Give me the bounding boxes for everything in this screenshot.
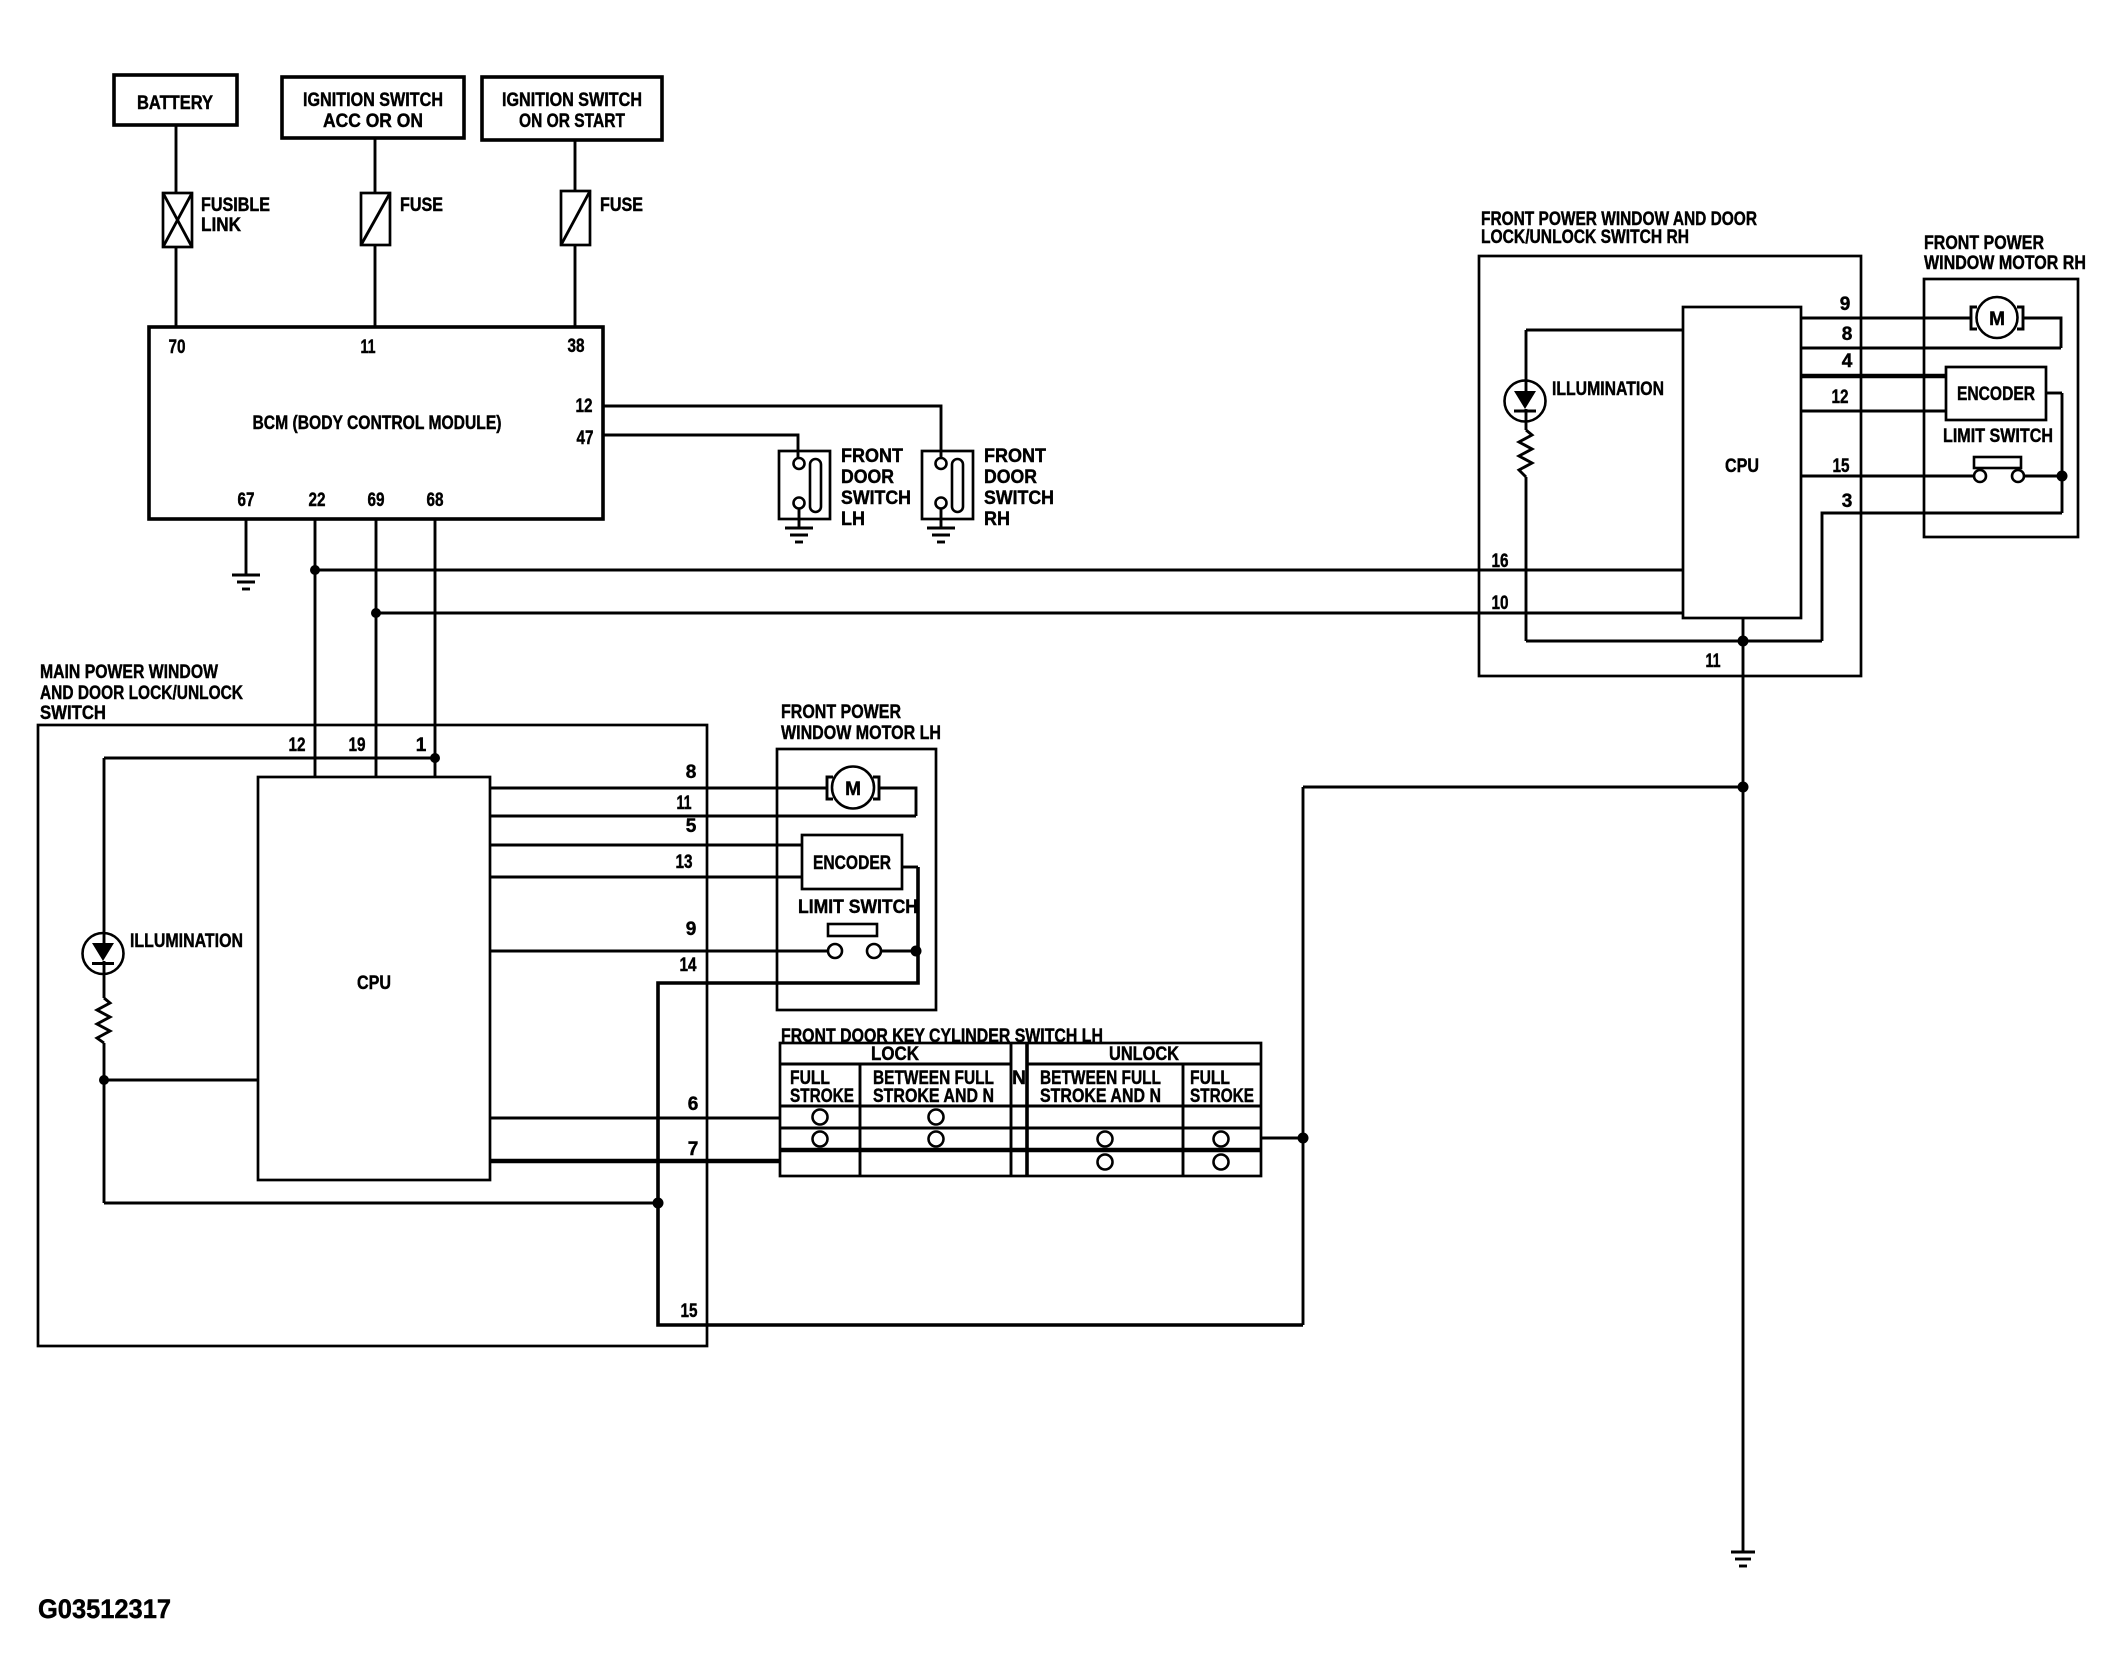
svg-text:19: 19 [349, 735, 366, 756]
svg-text:WINDOW MOTOR RH: WINDOW MOTOR RH [1924, 253, 2086, 274]
svg-text:N: N [1012, 1068, 1026, 1089]
svg-text:12: 12 [1832, 387, 1849, 408]
svg-text:LOCK: LOCK [871, 1044, 919, 1065]
svg-text:14: 14 [680, 955, 697, 976]
svg-text:47: 47 [577, 428, 594, 449]
svg-text:CPU: CPU [1725, 456, 1759, 477]
svg-text:RH: RH [984, 509, 1010, 530]
svg-text:ENCODER: ENCODER [1957, 384, 2035, 405]
svg-text:UNLOCK: UNLOCK [1109, 1044, 1179, 1065]
svg-text:CPU: CPU [357, 973, 391, 994]
svg-text:16: 16 [1492, 551, 1509, 572]
svg-text:STROKE AND N: STROKE AND N [873, 1086, 994, 1107]
svg-text:9: 9 [1840, 294, 1851, 315]
svg-text:G03512317: G03512317 [38, 1594, 171, 1624]
svg-text:IGNITION SWITCH: IGNITION SWITCH [502, 90, 642, 111]
svg-text:67: 67 [238, 490, 255, 511]
svg-text:8: 8 [686, 762, 697, 783]
svg-text:15: 15 [1833, 456, 1850, 477]
svg-text:AND DOOR LOCK/UNLOCK: AND DOOR LOCK/UNLOCK [40, 683, 243, 704]
svg-text:BATTERY: BATTERY [137, 93, 213, 114]
svg-text:M: M [1989, 309, 2005, 330]
svg-text:7: 7 [688, 1139, 699, 1160]
svg-text:8: 8 [1842, 324, 1853, 345]
svg-text:ENCODER: ENCODER [813, 853, 891, 874]
svg-text:70: 70 [169, 337, 186, 358]
svg-text:10: 10 [1492, 593, 1509, 614]
svg-text:12: 12 [289, 735, 306, 756]
svg-text:5: 5 [686, 816, 697, 837]
svg-text:FUSIBLE: FUSIBLE [201, 195, 270, 216]
svg-text:LIMIT SWITCH: LIMIT SWITCH [1943, 426, 2053, 447]
svg-text:MAIN POWER WINDOW: MAIN POWER WINDOW [40, 662, 218, 683]
svg-text:38: 38 [568, 336, 585, 357]
svg-text:12: 12 [576, 396, 593, 417]
svg-text:15: 15 [681, 1301, 698, 1322]
svg-text:LIMIT SWITCH: LIMIT SWITCH [798, 897, 918, 918]
svg-text:LINK: LINK [201, 215, 241, 236]
svg-text:FUSE: FUSE [400, 195, 443, 216]
svg-text:WINDOW MOTOR LH: WINDOW MOTOR LH [781, 723, 941, 744]
svg-text:9: 9 [686, 919, 697, 940]
svg-text:BCM (BODY CONTROL MODULE): BCM (BODY CONTROL MODULE) [253, 413, 502, 434]
svg-text:6: 6 [688, 1094, 699, 1115]
svg-text:FRONT POWER: FRONT POWER [1924, 233, 2044, 254]
svg-text:FUSE: FUSE [600, 195, 643, 216]
svg-text:M: M [845, 779, 861, 800]
svg-text:FRONT: FRONT [841, 446, 903, 467]
svg-text:FRONT: FRONT [984, 446, 1046, 467]
svg-text:ACC OR ON: ACC OR ON [323, 111, 423, 132]
svg-text:IGNITION SWITCH: IGNITION SWITCH [303, 90, 443, 111]
svg-text:STROKE AND N: STROKE AND N [1040, 1086, 1161, 1107]
svg-text:SWITCH: SWITCH [984, 488, 1054, 509]
svg-text:ILLUMINATION: ILLUMINATION [130, 931, 243, 952]
svg-text:1: 1 [416, 735, 427, 756]
svg-text:LOCK/UNLOCK SWITCH RH: LOCK/UNLOCK SWITCH RH [1481, 227, 1689, 248]
svg-text:ILLUMINATION: ILLUMINATION [1552, 379, 1664, 400]
svg-text:11: 11 [677, 793, 692, 814]
svg-text:22: 22 [309, 490, 326, 511]
svg-text:68: 68 [427, 490, 444, 511]
svg-text:SWITCH: SWITCH [40, 703, 106, 724]
svg-text:DOOR: DOOR [984, 467, 1037, 488]
svg-text:4: 4 [1842, 351, 1853, 372]
svg-text:LH: LH [841, 509, 865, 530]
svg-text:3: 3 [1842, 491, 1853, 512]
svg-text:STROKE: STROKE [1190, 1086, 1254, 1107]
svg-text:11: 11 [361, 337, 376, 358]
svg-text:FRONT POWER: FRONT POWER [781, 702, 901, 723]
svg-text:SWITCH: SWITCH [841, 488, 911, 509]
svg-text:STROKE: STROKE [790, 1086, 854, 1107]
svg-text:69: 69 [368, 490, 385, 511]
svg-text:11: 11 [1706, 651, 1721, 672]
svg-text:ON OR START: ON OR START [519, 111, 625, 132]
svg-text:13: 13 [676, 852, 693, 873]
svg-text:DOOR: DOOR [841, 467, 894, 488]
